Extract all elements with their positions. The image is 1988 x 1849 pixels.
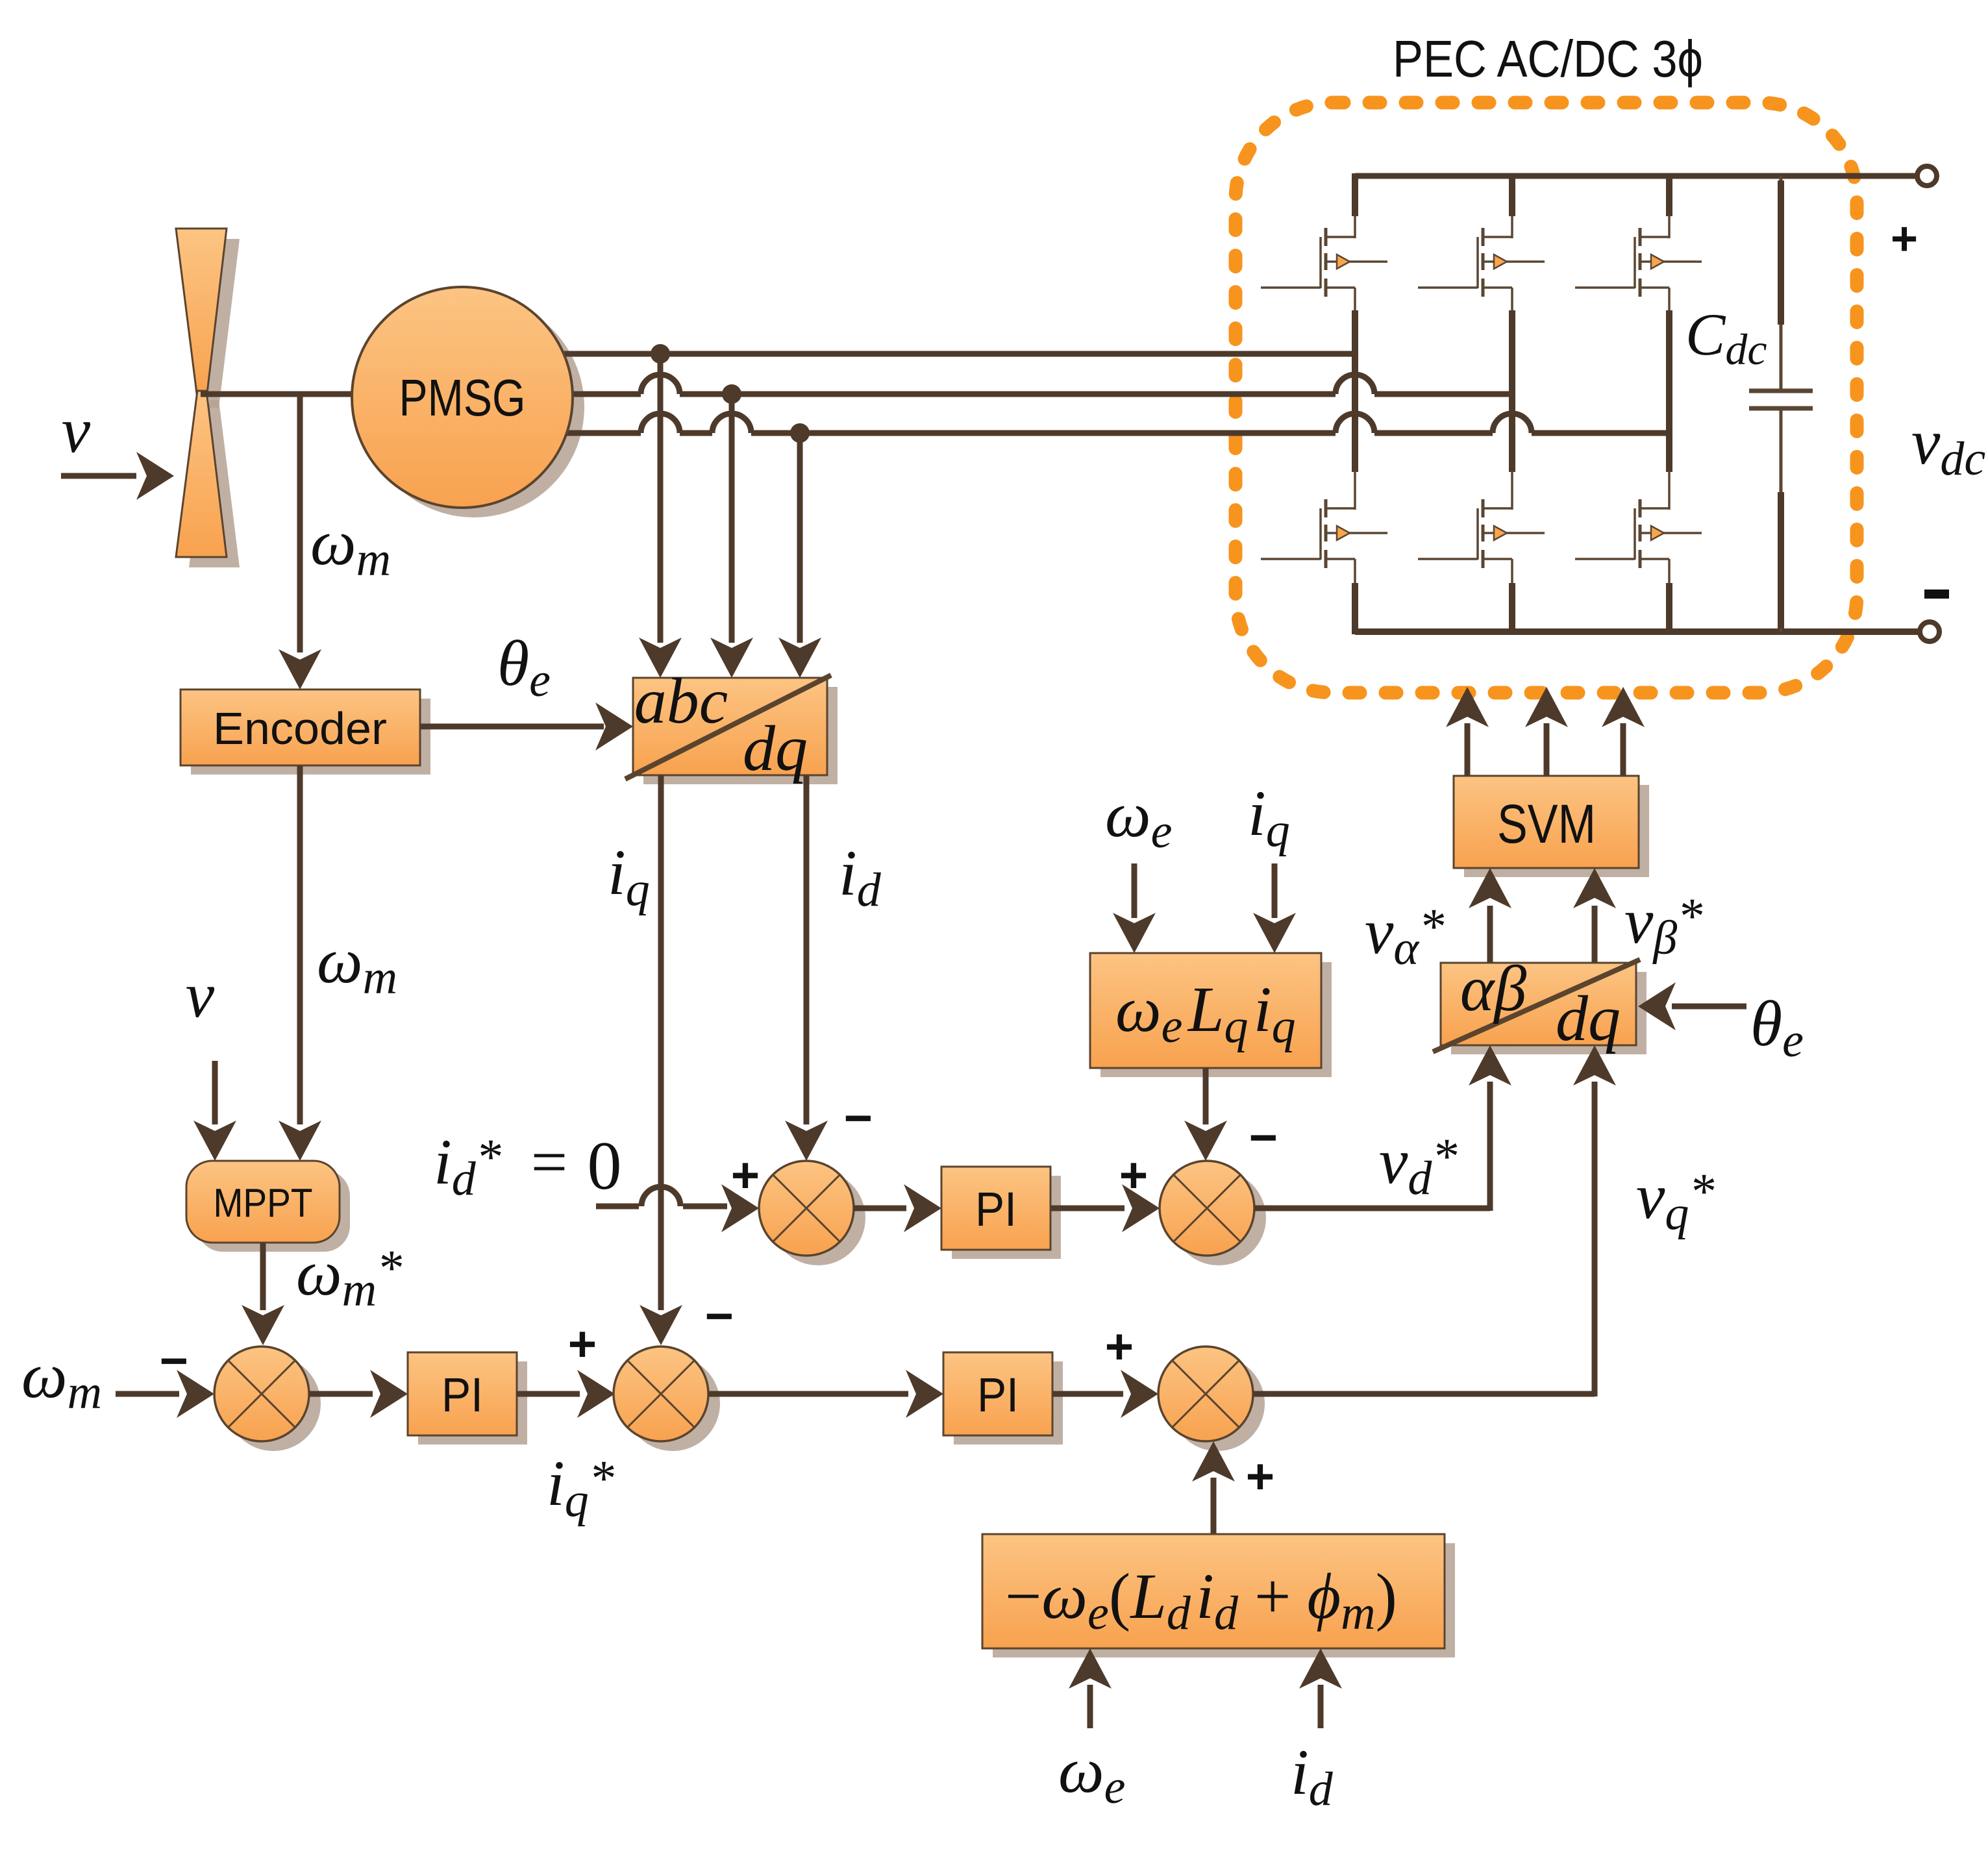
leg 1 upper source wire: [1354, 288, 1356, 312]
svg-text:PEC AC/DC 3ϕ: PEC AC/DC 3ϕ: [1393, 30, 1703, 88]
positive terminal: [1917, 166, 1937, 186]
wire i_d from abc-dq: [804, 775, 810, 1124]
transistor Q1 (upper): [1326, 236, 1355, 238]
dc-link capacitor Cdc: [1780, 176, 1783, 391]
negative terminal: [1920, 622, 1939, 641]
leg 3 upper source wire: [1668, 288, 1671, 312]
wire v to MPPT: [212, 1061, 218, 1124]
wind arrow v: [61, 473, 136, 479]
wire PI1 to sum4: [517, 1391, 580, 1397]
shadow of wLqiq box: [1100, 962, 1332, 1077]
shadow of abc-dq box: [643, 687, 838, 784]
wire omega_e to feedforward: [1087, 1685, 1093, 1728]
transistor Q6 (lower): [1640, 507, 1669, 510]
wire i_d*=0 to sum1: [596, 1204, 639, 1210]
dashed border of PEC AC/DC converter: [1236, 103, 1857, 693]
PI3 box: [943, 1352, 1052, 1435]
svg-text:v: v: [62, 394, 91, 466]
gate signal wire 2: [1544, 723, 1550, 776]
svg-text:dq: dq: [743, 712, 808, 784]
svg-text:+: +: [568, 1317, 597, 1372]
turbine shaft: [201, 391, 354, 397]
leg 1 upper drain stub: [1352, 173, 1358, 216]
svg-text:v: v: [186, 959, 215, 1031]
alphabeta-dq box: [1441, 963, 1636, 1045]
svg-text:+: +: [1105, 1319, 1134, 1374]
shadow of PI2 box: [952, 1176, 1061, 1259]
svg-text:αβ: αβ: [1460, 952, 1526, 1024]
svg-text:PI: PI: [441, 1368, 483, 1422]
shadow of alphabeta-dq box: [1451, 972, 1646, 1054]
svg-text:ωe Lq iq: ωe Lq iq: [1115, 973, 1296, 1053]
gate signal wire 1: [1465, 723, 1471, 776]
svg-text:=: =: [531, 1126, 567, 1198]
leg 2 lower drain stub: [1509, 394, 1515, 472]
svg-text:−: −: [160, 1334, 188, 1389]
svg-text:Encoder: Encoder: [213, 703, 387, 754]
PMSG generator circle: [352, 287, 573, 508]
svg-text:0: 0: [588, 1128, 622, 1204]
shadow of MPPT box: [197, 1170, 350, 1252]
wire wLqiq to sum2: [1203, 1068, 1209, 1124]
node shaft-tap: [297, 394, 303, 397]
bottom DC bus: [1355, 628, 1918, 635]
wire sum4 to PI3: [708, 1391, 908, 1397]
wire PI2 to sum2: [1050, 1206, 1124, 1211]
PI1 box: [408, 1352, 517, 1435]
MPPT box: [186, 1161, 340, 1243]
label - (dc negative): [1924, 589, 1949, 599]
wire i_d to feedforward: [1318, 1685, 1324, 1728]
current tap a wire: [658, 354, 664, 643]
wire PI3 to sum5: [1052, 1391, 1123, 1397]
wire v_d* to alphabeta-dq: [1254, 1206, 1490, 1211]
Encoder box: [180, 689, 420, 765]
svg-text:MPPT: MPPT: [214, 1181, 313, 1226]
wire v_q* to alphabeta-dq: [1253, 1391, 1595, 1397]
wire theta_e to alphabeta-dq: [1672, 1004, 1746, 1010]
svg-text:SVM: SVM: [1497, 793, 1596, 854]
wire v_alpha* to SVM: [1487, 906, 1493, 963]
shadow of PI3 box: [954, 1361, 1063, 1445]
svg-text:PMSG: PMSG: [399, 369, 526, 427]
feedforward box: [982, 1534, 1445, 1648]
svg-text:dq: dq: [1556, 982, 1621, 1054]
transistor Q2 (upper): [1483, 236, 1512, 238]
sum junction sum4: [625, 1356, 720, 1451]
phase line c: [566, 430, 641, 436]
SVM box: [1454, 776, 1639, 868]
turbine blade: [176, 229, 227, 399]
transistor Q4 (lower): [1326, 507, 1355, 510]
leg 3 lower drain stub: [1666, 433, 1672, 472]
phase line b: [573, 391, 641, 397]
svg-text:−ωe(Ld id + ϕm): −ωe(Ld id + ϕm): [1005, 1560, 1397, 1640]
junction dot a: [651, 344, 670, 364]
wire feedforward to sum5: [1211, 1478, 1217, 1534]
sum junction sum2: [1171, 1171, 1266, 1265]
junction dot b: [722, 384, 741, 404]
wire omega_m to sum3: [116, 1391, 179, 1397]
svg-text:PI: PI: [975, 1182, 1017, 1236]
svg-text:−: −: [844, 1091, 873, 1146]
wLqiq box: [1090, 953, 1321, 1068]
shadow of Encoder box: [191, 699, 430, 775]
wire MPPT to sum3: [260, 1243, 266, 1310]
svg-text:+: +: [731, 1148, 760, 1203]
leg 3 lower source wire: [1668, 559, 1671, 584]
phase line a: [564, 351, 1355, 357]
wire i_q to wLqiq box: [1272, 863, 1278, 918]
current tap b wire: [729, 394, 735, 643]
sum junction sum1: [771, 1171, 865, 1265]
transistor Q5 (lower): [1483, 507, 1512, 510]
wire sum3 to PI1: [309, 1391, 373, 1397]
wire Encoder to MPPT: [297, 765, 303, 1124]
svg-text:−: −: [705, 1289, 734, 1344]
wire omega_m to Encoder: [297, 394, 303, 652]
wire i_q from abc-dq: [658, 775, 664, 1310]
svg-text:abc: abc: [634, 665, 728, 737]
svg-text:PI: PI: [977, 1368, 1019, 1422]
current tap c wire: [797, 433, 803, 643]
sum junction sum5: [1170, 1356, 1265, 1451]
shadow of turbine blade: [189, 239, 240, 408]
leg 1 lower source wire: [1354, 559, 1356, 584]
top DC bus: [1355, 173, 1915, 179]
svg-text:+: +: [1891, 213, 1918, 265]
leg 1 lower drain stub: [1352, 354, 1358, 472]
shadow of SVM box: [1464, 785, 1649, 877]
svg-text:+: +: [1246, 1449, 1274, 1504]
junction dot c: [790, 423, 810, 443]
svg-text:−: −: [1249, 1110, 1278, 1165]
wire omega_e to wLqiq box: [1132, 863, 1137, 918]
transistor Q3 (upper): [1640, 236, 1669, 238]
leg 2 upper source wire: [1511, 288, 1513, 312]
PI2 box: [941, 1167, 1050, 1250]
gate signal wire 3: [1621, 723, 1626, 776]
wire sum1 to PI2: [854, 1206, 906, 1211]
shadow of feedforward box: [993, 1543, 1455, 1657]
shadow of PMSG circle: [364, 297, 584, 517]
wire v_beta* to SVM: [1592, 906, 1598, 963]
leg 3 upper drain stub: [1666, 173, 1672, 216]
abc-dq transform box: [633, 678, 827, 775]
shadow of PI1 box: [418, 1361, 527, 1445]
leg 2 lower source wire: [1511, 559, 1513, 584]
wire theta_e Encoder to abc-dq: [420, 724, 604, 730]
sum junction sum3: [226, 1356, 321, 1451]
leg 2 upper drain stub: [1509, 173, 1515, 216]
